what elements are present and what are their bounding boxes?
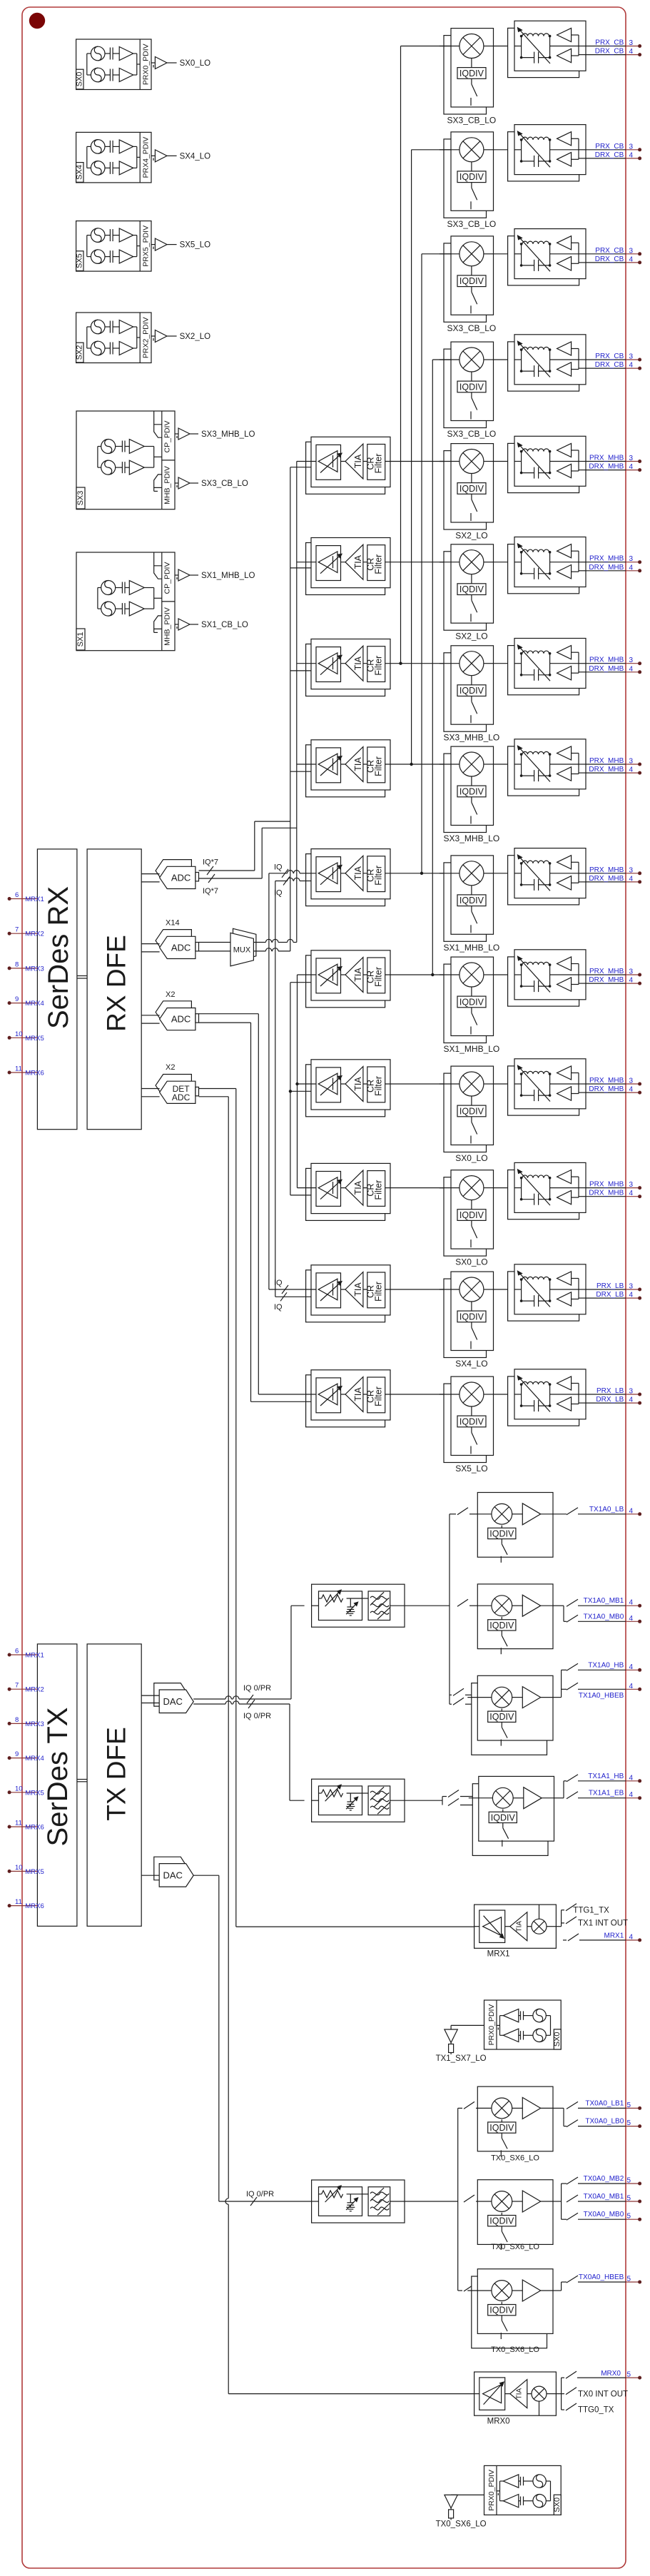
wire DET ADC out1 to MRX1 — [199, 1088, 236, 1090]
port wire PRX_MHB — [586, 1187, 626, 1189]
wire mixer M4 to frontend FE4 — [494, 359, 515, 360]
svg-text:SX4_LO: SX4_LO — [180, 152, 211, 161]
LO switch SW1 — [471, 78, 472, 84]
svg-text:IQDIV: IQDIV — [459, 584, 484, 594]
mixer M3 core — [459, 242, 484, 266]
BB10 variable gain amp — [316, 958, 341, 993]
port wire DRX_MHB — [586, 671, 626, 673]
svg-text:SX1_MHB_LO: SX1_MHB_LO — [444, 943, 500, 953]
svg-text:SX3_CB_LO: SX3_CB_LO — [447, 116, 497, 126]
port wire DRX_MHB — [586, 983, 626, 984]
svg-text:MRX3: MRX3 — [25, 1720, 44, 1728]
port wire DRX_CB — [586, 262, 626, 263]
SX5 oscillator A — [91, 228, 105, 243]
wire DET ADC out2 to MRX0 — [199, 1096, 229, 1097]
svg-text:SX3: SX3 — [76, 491, 85, 506]
wire to TX1A0 LB mixer — [450, 1513, 456, 1515]
bus between SerDes RX and RX DFE — [77, 975, 87, 977]
SX2 LO output buffer — [151, 335, 155, 337]
shared IQ bus chain9 to chain13 (I) — [268, 873, 270, 1289]
svg-text:PRX_CB: PRX_CB — [595, 143, 624, 151]
SX1 MHB divider tag — [154, 616, 162, 629]
RX mixer block M5 (SX2_LO) — [444, 451, 487, 529]
svg-text:MRX2: MRX2 — [25, 930, 44, 938]
MRX1 TIA — [505, 1926, 510, 1927]
port wire TX0A0_MB1 — [567, 2195, 578, 2202]
svg-text:9: 9 — [15, 1750, 19, 1758]
BB13 TIA — [345, 1272, 363, 1307]
BB-T2 programmable attenuator — [319, 1786, 362, 1815]
SX5 oscillator B — [91, 250, 105, 264]
FE2 tunable inductor — [522, 137, 549, 140]
FE13 PRX amp — [557, 1272, 572, 1285]
BB-T1 tunable shunt capacitor — [350, 1598, 351, 1607]
LO distribution block for TX0_SX6_LO — [484, 2465, 562, 2515]
wire BB-T1 output trunk — [405, 1605, 450, 1606]
svg-text:Filter: Filter — [374, 1076, 384, 1096]
wire chain6 I stub — [297, 562, 311, 563]
TX mixer block TX0A0-MB — [477, 2180, 553, 2245]
BB-T1 ground — [350, 1609, 351, 1611]
FE1 capacitor — [534, 52, 535, 64]
svg-text:4: 4 — [629, 766, 634, 774]
serdes lane port MRX6 — [9, 1905, 37, 1907]
svg-text:4: 4 — [629, 977, 634, 985]
shared IQ bus chain10 to chain12 (Q) — [290, 983, 291, 1195]
mixer M1 core — [459, 34, 484, 59]
DAC0 input stubs — [141, 1695, 159, 1696]
TX1A0 MB output split — [553, 1605, 564, 1606]
svg-text:4: 4 — [629, 1086, 634, 1094]
port wire PRX_MHB — [586, 764, 626, 765]
wire to TX0 MB mixer — [464, 2195, 474, 2202]
svg-text:DAC: DAC — [163, 1870, 182, 1881]
BB14 TIA — [345, 1377, 363, 1412]
svg-text:3: 3 — [629, 866, 634, 874]
BB13 CR filter — [367, 1272, 385, 1308]
TX0A0-MB PA driver — [512, 2201, 523, 2202]
RF frontend LNA block FE5 — [508, 443, 579, 492]
FE1 DRX amp — [557, 49, 572, 62]
dac DAC0 — [154, 1683, 188, 1707]
port wire TX0A0_HBEB — [567, 2276, 578, 2283]
TX1_SX7_LO amp A — [503, 2009, 519, 2022]
SX5 buffer amp B — [119, 250, 133, 263]
SX3 CB LO buffer — [175, 482, 178, 484]
LO switch SW7 — [471, 696, 472, 702]
MRX1 output bracket — [556, 1926, 561, 1927]
svg-text:CP_PDIV: CP_PDIV — [163, 421, 172, 453]
mixer M12 core — [459, 1176, 484, 1200]
IQ divider IQDIV11 — [457, 1105, 486, 1117]
TX1_SX7_LO capacitor B — [520, 2031, 522, 2039]
SX0 oscillator B — [91, 68, 105, 82]
svg-text:IQ: IQ — [274, 1303, 283, 1312]
FE3 DRX amp — [557, 257, 572, 270]
FE12 matching network — [514, 1187, 522, 1189]
svg-text:4: 4 — [629, 362, 634, 370]
svg-text:4: 4 — [629, 463, 634, 471]
port wire TX1A0_HB — [567, 1663, 578, 1670]
FE9 tunable inductor — [522, 861, 549, 863]
svg-text:SX4_LO: SX4_LO — [455, 1359, 487, 1369]
wire BB6 to mixer M6 — [390, 562, 451, 563]
SX2 buffer amp B — [119, 342, 133, 355]
svg-text:SX2_LO: SX2_LO — [455, 632, 487, 642]
TX1A0-LB PA driver — [512, 1513, 523, 1515]
SX4 buffer amp A — [119, 140, 133, 153]
SX2 capacitor A — [109, 321, 111, 333]
BB9 CR filter — [367, 856, 385, 892]
BB-T3 programmable attenuator — [319, 2187, 362, 2216]
svg-text:PRX0_PDIV: PRX0_PDIV — [142, 44, 151, 85]
MRX0 TIA — [505, 2393, 510, 2395]
svg-text:SX5_LO: SX5_LO — [455, 1464, 487, 1474]
ADC0 input stubs — [141, 873, 159, 875]
svg-text:PRX_MHB: PRX_MHB — [589, 1077, 624, 1085]
TX1A0-HB LO switch — [501, 1722, 502, 1727]
svg-text:CP_PDIV: CP_PDIV — [163, 562, 172, 594]
svg-text:TX0A0_MB1: TX0A0_MB1 — [584, 2193, 624, 2201]
FE12 PRX amp — [557, 1170, 572, 1184]
port wire PRX_LB — [586, 1394, 626, 1395]
svg-text:SX3_MHB_LO: SX3_MHB_LO — [444, 833, 500, 843]
BB12 variable gain amp — [316, 1172, 341, 1207]
svg-text:4: 4 — [629, 48, 634, 56]
svg-text:SX2_LO: SX2_LO — [180, 333, 211, 341]
FE7 PRX amp — [557, 646, 572, 659]
svg-text:MRX1: MRX1 — [25, 896, 44, 903]
svg-text:Filter: Filter — [374, 656, 384, 676]
wire BB-T3 output trunk — [405, 2201, 458, 2202]
svg-text:MRX1: MRX1 — [487, 1950, 510, 1959]
SX1 capacitor B — [121, 603, 123, 614]
RX mixer block M10 (SX1_MHB_LO) — [444, 964, 487, 1043]
BB5 TIA — [345, 444, 363, 479]
mixer M8 core — [459, 752, 484, 776]
wire to TX1A0 MB mixer — [457, 1599, 468, 1606]
mixer M10 LO line — [471, 987, 472, 996]
svg-text:SX5: SX5 — [76, 253, 84, 268]
TX1A1 PA driver — [513, 1797, 524, 1799]
SX3 buffer amp A — [129, 440, 144, 454]
port wire PRX_MHB — [586, 1083, 626, 1085]
FE13 DRX amp — [557, 1292, 572, 1306]
svg-text:TIA: TIA — [516, 1921, 524, 1932]
RX mixer block M13 (SX4_LO) — [444, 1279, 487, 1357]
svg-text:DAC: DAC — [163, 1696, 182, 1707]
FE10 tunable inductor — [522, 962, 549, 965]
mixer M3 LO line — [471, 266, 472, 275]
FE10 DRX amp — [557, 978, 572, 991]
port wire DRX_MHB — [586, 772, 626, 774]
BB9 variable gain amp — [316, 857, 341, 892]
svg-text:IQDIV: IQDIV — [459, 1106, 484, 1116]
svg-text:TX1A0_MB0: TX1A0_MB0 — [584, 1613, 624, 1621]
FE12 tunable inductor — [522, 1175, 549, 1178]
RX baseband block BB14 (VGA/TIA/CR filter) — [306, 1375, 385, 1427]
svg-text:4: 4 — [629, 1933, 634, 1941]
RX mixer block M11 (SX0_LO) — [444, 1073, 487, 1152]
TX0A0-MB LO switch — [501, 2226, 502, 2231]
svg-text:IQ*7: IQ*7 — [203, 887, 218, 896]
synthesizer block SX0 — [76, 39, 151, 90]
svg-text:TX0A0_MB2: TX0A0_MB2 — [584, 2175, 624, 2183]
LO switch SW10 — [471, 1008, 472, 1013]
svg-text:PRX_MHB: PRX_MHB — [589, 656, 624, 664]
wire chain6 Q stub — [290, 567, 311, 569]
svg-text:4: 4 — [629, 151, 634, 159]
port wire TX1A0_MB0 — [567, 1615, 578, 1622]
svg-text:TX1A0_HBEB: TX1A0_HBEB — [579, 1692, 624, 1700]
wire BB13 to mixer M13 — [390, 1289, 451, 1290]
mixer M9 core — [459, 861, 484, 886]
svg-text:3: 3 — [629, 353, 634, 361]
SX5 capacitor B — [109, 250, 111, 263]
LO switch SW14 — [471, 1427, 472, 1433]
TX1A0-LB LO switch — [501, 1539, 502, 1544]
FE6 tuning arrow — [519, 545, 551, 579]
mixer M11 core — [459, 1072, 484, 1096]
CB/MHB shared baseband bus 1 — [401, 46, 452, 47]
mixer M8 LO line — [471, 776, 472, 786]
svg-text:3: 3 — [629, 143, 634, 151]
wire mixer M1 to frontend FE1 — [494, 46, 515, 47]
RF frontend LNA block FE14 — [508, 1376, 579, 1426]
FE6 tunable inductor — [522, 549, 549, 552]
adc ADC2 — [156, 1001, 191, 1023]
BB8 variable gain amp — [316, 748, 341, 783]
svg-text:PRX_CB: PRX_CB — [595, 353, 624, 360]
port wire TX1A1_HB — [567, 1775, 578, 1782]
TX0A0-MB upconversion mixer — [492, 2191, 512, 2212]
TX1A0-LB upconversion mixer — [492, 1503, 512, 1524]
RF frontend LNA block FE9 — [508, 856, 579, 905]
FE14 tunable inductor — [522, 1381, 549, 1384]
port wire DRX_MHB — [586, 1196, 626, 1197]
SX1 CB LO buffer — [175, 624, 178, 625]
svg-text:PRX5_PDIV: PRX5_PDIV — [142, 225, 151, 267]
svg-text:MRX3: MRX3 — [25, 965, 44, 973]
svg-text:DRX_LB: DRX_LB — [596, 1291, 624, 1299]
RF frontend LNA block FE3 — [508, 236, 579, 285]
svg-text:RX DFE: RX DFE — [102, 935, 131, 1032]
port wire PRX_CB — [586, 359, 626, 360]
BB5 variable gain amp — [316, 445, 341, 480]
svg-text:SerDes RX: SerDes RX — [43, 886, 74, 1029]
svg-text:MRX4: MRX4 — [25, 1755, 44, 1763]
MRX0 VGA — [479, 2378, 505, 2410]
svg-text:SX1_MHB_LO: SX1_MHB_LO — [201, 572, 255, 580]
wire BB11 to mixer M11 — [390, 1083, 451, 1085]
FE8 DRX amp — [557, 767, 572, 781]
svg-text:SX0: SX0 — [553, 2498, 562, 2512]
svg-text:DRX_MHB: DRX_MHB — [589, 1085, 624, 1093]
wire DAC0 I out (IQ 0/PR) to TX1 baseband BB-T1 — [193, 1698, 225, 1700]
svg-text:IQDIV: IQDIV — [489, 1712, 514, 1722]
mixer M1 LO line — [471, 59, 472, 68]
svg-text:10: 10 — [15, 1030, 23, 1038]
svg-text:TX0_SX6_LO: TX0_SX6_LO — [436, 2520, 487, 2528]
wire ADC2 Q out to chain14 baseband — [199, 1022, 251, 1023]
port wire PRX_MHB — [586, 663, 626, 664]
FE5 DRX amp — [557, 464, 572, 477]
FE9 DRX amp — [557, 876, 572, 890]
synthesizer block SX1 — [76, 552, 175, 651]
svg-text:Filter: Filter — [374, 554, 384, 574]
svg-text:MRX0: MRX0 — [487, 2418, 510, 2426]
FE4 tunable inductor — [522, 347, 549, 350]
svg-text:MRX6: MRX6 — [25, 1824, 44, 1832]
svg-text:IQDIV: IQDIV — [459, 1210, 484, 1220]
svg-text:MHB_PDIV: MHB_PDIV — [163, 466, 172, 504]
FE11 capacitor — [534, 1090, 535, 1101]
LO distribution block for TX1_SX7_LO — [484, 2000, 562, 2049]
BB7 TIA — [345, 646, 363, 681]
IQ divider IQDIV6 — [457, 584, 486, 595]
FE9 capacitor — [534, 879, 535, 891]
RX mixer block M4 (SX3_CB_LO) — [444, 349, 487, 427]
SX0 capacitor A — [109, 48, 111, 60]
svg-text:PRX4_PDIV: PRX4_PDIV — [142, 137, 151, 178]
SX2 oscillator A — [91, 320, 105, 334]
TX1A1 upconversion mixer — [492, 1788, 513, 1808]
wire BB14 to mixer M14 — [390, 1394, 451, 1395]
svg-text:3: 3 — [629, 1181, 634, 1189]
svg-text:X2: X2 — [166, 990, 175, 999]
svg-text:TX0A0_HBEB: TX0A0_HBEB — [579, 2273, 624, 2281]
svg-text:Filter: Filter — [374, 756, 384, 776]
svg-text:TIA: TIA — [353, 454, 363, 468]
BB-T3 attenuator arrow — [325, 2187, 340, 2202]
svg-text:TX0_SX6_LO: TX0_SX6_LO — [491, 2154, 539, 2162]
svg-text:PRX_LB: PRX_LB — [596, 1387, 624, 1395]
wire mixer M9 to frontend FE9 — [494, 873, 515, 874]
MRX0 detector mixer — [527, 2393, 532, 2395]
CB/MHB shared baseband bus 2 — [412, 149, 451, 151]
TX1A0-MB IQ divider — [501, 1617, 502, 1620]
FE4 DRX amp — [557, 362, 572, 376]
BB-T3 ground — [350, 2205, 351, 2207]
FE1 tuning arrow — [519, 29, 551, 64]
svg-text:ADC: ADC — [171, 872, 191, 883]
svg-text:TX1A0_LB: TX1A0_LB — [589, 1506, 624, 1513]
port wire DRX_MHB — [586, 570, 626, 572]
TX1A1 IQ divider — [502, 1810, 504, 1812]
svg-text:10: 10 — [15, 1785, 23, 1792]
svg-text:TX0A0_MB0: TX0A0_MB0 — [584, 2211, 624, 2218]
svg-text:4: 4 — [629, 1599, 634, 1607]
svg-text:TX DFE: TX DFE — [102, 1727, 131, 1821]
LO switch SW11 — [471, 1117, 472, 1122]
TX0_SX6_LO oscillator B — [533, 2495, 546, 2507]
svg-text:MRX6: MRX6 — [25, 1070, 44, 1077]
port wire PRX_LB — [586, 1289, 626, 1290]
FE3 tuning arrow — [519, 237, 551, 271]
mixer M11 LO line — [471, 1096, 472, 1105]
TX1_SX7_LO oscillator A — [533, 2009, 546, 2022]
svg-text:PRX_MHB: PRX_MHB — [589, 968, 624, 975]
svg-text:PRX_CB: PRX_CB — [595, 39, 624, 47]
svg-text:4: 4 — [629, 564, 634, 572]
svg-text:IQDIV: IQDIV — [459, 276, 484, 286]
RX baseband block BB6 (VGA/TIA/CR filter) — [306, 543, 385, 595]
svg-text:ADC: ADC — [172, 1092, 191, 1102]
RX baseband block BB5 (VGA/TIA/CR filter) — [306, 442, 385, 494]
TX1A0-HB IQ divider — [501, 1708, 502, 1711]
wire ADC0 Q out to IQ bus — [199, 878, 263, 879]
IQ divider IQDIV13 — [457, 1311, 486, 1322]
wire chain8 I stub — [297, 764, 311, 765]
TX1_SX7_LO amp B — [503, 2029, 519, 2042]
SX0 LO output buffer — [151, 62, 155, 64]
svg-text:6: 6 — [15, 1648, 19, 1655]
svg-text:IQDIV: IQDIV — [459, 997, 484, 1007]
TX baseband block BB-T1 — [312, 1584, 405, 1627]
svg-text:3: 3 — [629, 758, 634, 766]
FE7 tunable inductor — [522, 651, 549, 654]
FE14 matching network — [514, 1394, 522, 1395]
wire BB12 to mixer M12 — [390, 1187, 451, 1189]
BB-T2 ground — [350, 1804, 351, 1806]
RX baseband block BB11 (VGA/TIA/CR filter) — [306, 1065, 385, 1117]
TX0A0-LB LO switch — [501, 2133, 502, 2138]
FE7 capacitor — [534, 669, 535, 681]
FE2 DRX amp — [557, 153, 572, 166]
TX0A0 LB output split — [553, 2107, 564, 2109]
port wire TX1A1_EB — [567, 1792, 578, 1799]
synthesizer block SX4 — [76, 132, 151, 183]
TX0A0 HBEB output — [553, 2290, 562, 2291]
svg-text:TIA: TIA — [516, 2388, 524, 2399]
port wire MRX1 — [563, 1939, 567, 1941]
SX1 MHB LO buffer — [175, 574, 178, 576]
SX0 buffer amp B — [119, 69, 133, 82]
svg-text:IQDIV: IQDIV — [489, 2216, 514, 2226]
wire MUX to chain5-8 shared Q bus — [253, 950, 265, 952]
svg-text:5: 5 — [627, 2213, 631, 2221]
svg-text:IQDIV: IQDIV — [459, 1312, 484, 1322]
FE5 PRX amp — [557, 443, 572, 457]
measurement receiver block MRX1 — [474, 1905, 557, 1948]
svg-text:TTG1_TX: TTG1_TX — [573, 1907, 609, 1915]
LO switch SW4 — [471, 392, 472, 398]
wire mixer M5 to frontend FE5 — [494, 461, 515, 462]
IQ divider IQDIV10 — [457, 996, 486, 1008]
svg-text:5: 5 — [627, 2119, 631, 2127]
RX baseband block BB10 (VGA/TIA/CR filter) — [306, 955, 385, 1008]
FE8 PRX amp — [557, 746, 572, 760]
RF frontend LNA block FE12 — [508, 1170, 579, 1219]
svg-text:TX1A1_EB: TX1A1_EB — [589, 1790, 624, 1797]
wire mixer M12 to frontend FE12 — [494, 1187, 515, 1189]
svg-text:IQ 0/PR: IQ 0/PR — [243, 1712, 271, 1720]
wire mixer M13 to frontend FE13 — [494, 1289, 515, 1290]
FE9 matching network — [514, 873, 522, 874]
svg-text:MRX6: MRX6 — [25, 1902, 44, 1910]
block SerDes TX — [37, 1644, 77, 1926]
wire chain7 I stub — [297, 663, 311, 664]
svg-text:PRX2_PDIV: PRX2_PDIV — [142, 317, 151, 358]
svg-text:8: 8 — [15, 960, 19, 968]
SX0 capacitor B — [109, 69, 111, 81]
port wire TX0A0_MB2 — [567, 2177, 578, 2184]
LO switch SW12 — [471, 1220, 472, 1226]
port wire MRX0 — [562, 2377, 564, 2378]
svg-text:TTG0_TX: TTG0_TX — [578, 2406, 614, 2415]
SX4 oscillator A — [91, 140, 105, 154]
FE6 PRX amp — [557, 544, 572, 558]
